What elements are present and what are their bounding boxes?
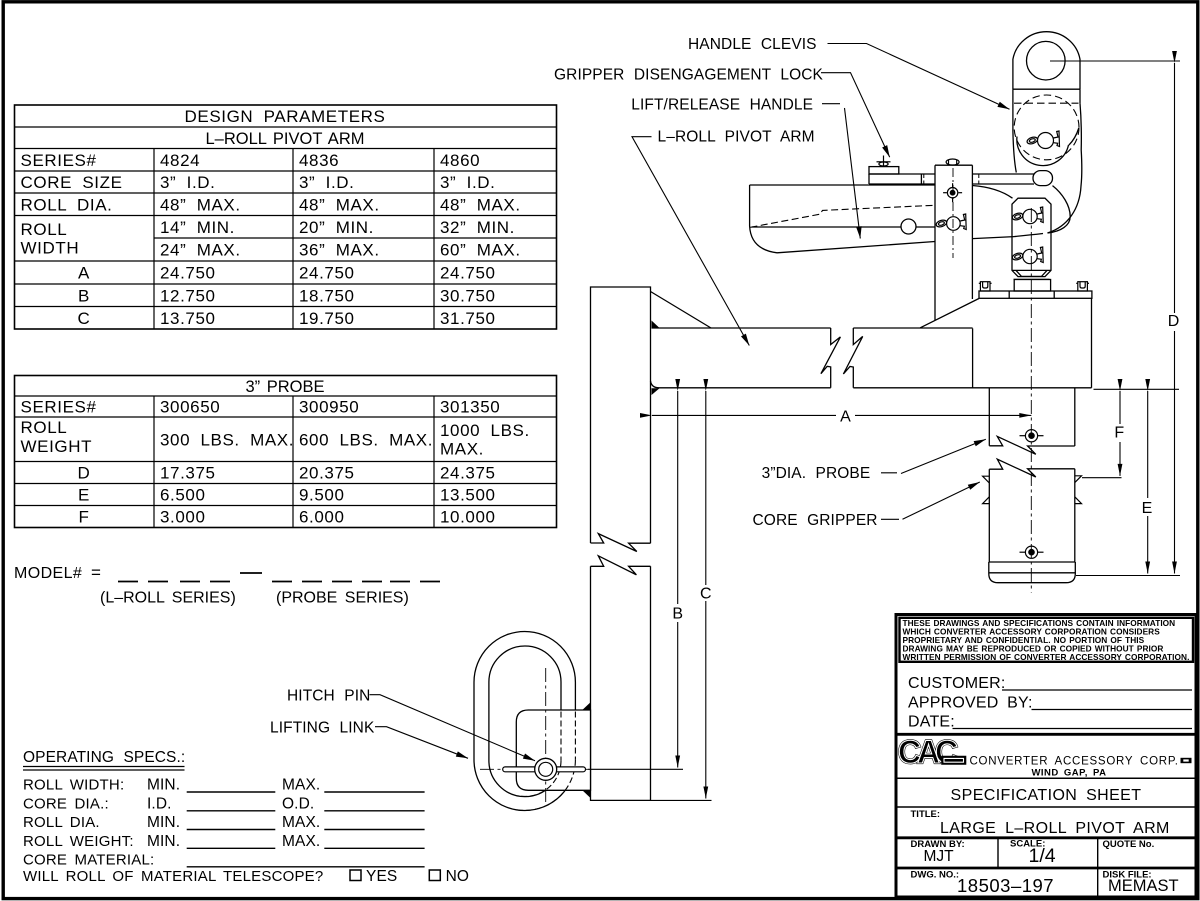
svg-text:4824: 4824 [160,151,200,170]
svg-text:CORE MATERIAL:: CORE MATERIAL: [23,851,154,868]
svg-text:LIFTING LINK: LIFTING LINK [270,719,375,736]
L-roll mast column upper piece [591,287,651,552]
lifting link bracket plate [516,710,590,790]
svg-text:12.750: 12.750 [160,286,216,305]
svg-text:18503–197: 18503–197 [957,875,1054,896]
svg-text:9.500: 9.500 [299,486,345,505]
svg-text:32” MIN.: 32” MIN. [440,218,515,237]
svg-text:300950: 300950 [299,398,359,417]
svg-text:DWG. NO.:: DWG. NO.: [911,870,960,881]
svg-text:QUOTE No.: QUOTE No. [1103,839,1155,850]
svg-text:3” I.D.: 3” I.D. [299,173,355,192]
svg-text:ROLL DIA.: ROLL DIA. [21,195,113,214]
svg-text:3” I.D.: 3” I.D. [160,173,216,192]
svg-text:6.500: 6.500 [160,486,206,505]
hidden (dashed) ring edges behind plate [518,712,576,811]
svg-text:SERIES#: SERIES# [21,398,97,417]
svg-text:MJT: MJT [924,848,955,865]
svg-text:A: A [78,264,90,283]
svg-text:LIFT/RELEASE HANDLE: LIFT/RELEASE HANDLE [631,97,813,114]
legal notice box [900,618,1194,662]
svg-text:L–ROLL PIVOT ARM: L–ROLL PIVOT ARM [658,129,815,146]
dim E [1147,391,1149,574]
title block outer frame [896,615,1196,898]
probe retaining bolt [1020,430,1044,442]
svg-text:1/4: 1/4 [1029,845,1056,867]
svg-text:24.750: 24.750 [160,264,216,283]
svg-text:MAX.: MAX. [282,833,320,850]
svg-text:=: = [91,563,102,582]
lower link plate (core gripper link) [1012,198,1051,279]
svg-text:CORE GRIPPER: CORE GRIPPER [753,512,878,529]
lift/release handle arm [750,185,1043,253]
svg-text:DATE:: DATE: [908,714,955,731]
svg-text:WEIGHT: WEIGHT [21,437,93,456]
svg-text:3.000: 3.000 [160,508,206,527]
svg-text:A: A [840,409,851,426]
svg-text:HANDLE CLEVIS: HANDLE CLEVIS [688,36,817,53]
svg-text:300 LBS. MAX.: 300 LBS. MAX. [160,431,294,450]
svg-text:F: F [79,508,90,527]
lifting link inner ring [489,646,561,797]
lock bolt [877,156,891,168]
svg-text:ROLL WEIGHT:: ROLL WEIGHT: [23,833,134,850]
svg-text:24.750: 24.750 [440,264,496,283]
left clamp bolt [979,282,992,291]
svg-text:4860: 4860 [440,151,480,170]
weld fillet triangles at beam/column joint [652,321,660,328]
handle strap bar [869,171,1053,186]
svg-text:GRIPPER DISENGAGEMENT LOCK: GRIPPER DISENGAGEMENT LOCK [554,67,824,84]
post pivot crosshair bolt [943,183,962,202]
svg-text:19.750: 19.750 [299,309,355,328]
svg-text:O.D.: O.D. [282,795,314,812]
svg-text:MIN.: MIN. [147,777,180,794]
svg-text:ROLL: ROLL [21,220,68,239]
weld triangles plate-to-column [582,702,590,710]
dim D [1050,61,1180,574]
post wing bolt [935,214,966,230]
svg-text:MAX.: MAX. [282,777,320,794]
svg-text:ROLL DIA.: ROLL DIA. [23,814,100,831]
post centerline [952,168,954,258]
svg-text:I.D.: I.D. [147,795,172,812]
svg-text:MODEL#: MODEL# [14,565,82,582]
svg-text:18.750: 18.750 [299,286,355,305]
svg-text:30.750: 30.750 [440,286,496,305]
svg-text:LARGE L–ROLL PIVOT ARM: LARGE L–ROLL PIVOT ARM [940,820,1170,837]
svg-text:WILL ROLL OF MATERIAL TELESCOP: WILL ROLL OF MATERIAL TELESCOPE? [23,868,323,885]
svg-text:CONVERTER ACCESSORY CORP.: CONVERTER ACCESSORY CORP. [970,756,1179,768]
svg-text:TITLE:: TITLE: [911,809,941,820]
link plate wing bolt lower [1012,247,1044,264]
svg-text:WIDTH: WIDTH [21,239,80,258]
dim C [651,391,712,800]
cam hook (gripper cam) [1017,103,1082,233]
svg-text:20” MIN.: 20” MIN. [299,218,374,237]
svg-text:20.375: 20.375 [299,464,355,483]
svg-text:36” MAX.: 36” MAX. [299,241,380,260]
svg-text:E: E [78,486,90,505]
svg-text:HITCH PIN: HITCH PIN [287,687,370,704]
svg-text:L–ROLL PIVOT ARM: L–ROLL PIVOT ARM [206,130,365,148]
svg-text:MIN.: MIN. [147,833,180,850]
svg-text:48” MAX.: 48” MAX. [160,195,241,214]
svg-text:(L–ROLL SERIES): (L–ROLL SERIES) [100,590,236,607]
svg-text:F: F [1114,425,1124,442]
svg-text:(PROBE SERIES): (PROBE SERIES) [276,590,409,607]
dim A [652,414,1031,416]
svg-text:300650: 300650 [160,398,220,417]
probe centerline [1030,208,1032,593]
svg-text:60” MAX.: 60” MAX. [440,241,521,260]
dim F [1082,391,1122,478]
svg-text:CORE DIA.:: CORE DIA.: [23,795,109,812]
svg-text:13.750: 13.750 [160,309,216,328]
table: 3" PROBE [15,376,557,528]
svg-text:E: E [1142,500,1153,517]
handle clevis [1013,32,1080,173]
svg-text:WIND GAP, PA: WIND GAP, PA [1031,768,1106,779]
svg-text:SPECIFICATION SHEET: SPECIFICATION SHEET [951,787,1142,804]
svg-text:SERIES#: SERIES# [21,151,97,170]
post top bolt [946,159,959,165]
svg-text:MIN.: MIN. [147,814,180,831]
right clamp bolt [1076,282,1089,291]
main beam left piece [651,328,841,388]
probe holder base flange [979,291,1092,298]
pedestal block under link plate [1014,280,1050,292]
svg-text:13.500: 13.500 [440,486,496,505]
svg-text:1000 LBS.: 1000 LBS. [440,421,530,440]
svg-text:OPERATING SPECS.:: OPERATING SPECS.: [23,749,185,766]
3" dia probe [989,388,1075,455]
svg-text:3” I.D.: 3” I.D. [440,173,496,192]
svg-text:3” PROBE: 3” PROBE [245,378,324,396]
gripper bolt [1020,546,1044,558]
gripper jaw teeth [983,476,1082,504]
gusset column-to-beam [651,292,712,329]
CAC logo [898,734,958,770]
main beam right piece [843,298,1091,388]
dim B [588,391,683,769]
svg-text:MAX.: MAX. [440,440,484,459]
svg-text:CORE SIZE: CORE SIZE [21,173,123,192]
svg-text:CUSTOMER:: CUSTOMER: [908,675,1006,692]
svg-text:24.375: 24.375 [440,464,496,483]
svg-text:C: C [78,309,91,328]
table: DESIGN PARAMETERS [15,105,557,329]
hitch pin bar [503,767,586,772]
pivot post [935,165,972,320]
svg-text:YES: YES [366,868,397,885]
svg-text:C: C [700,586,712,603]
svg-text:ROLL WIDTH:: ROLL WIDTH: [23,777,124,794]
svg-text:MAX.: MAX. [282,814,320,831]
link centerlines [480,668,588,806]
svg-text:10.000: 10.000 [440,508,496,527]
svg-text:17.375: 17.375 [160,464,216,483]
svg-text:B: B [672,606,683,623]
svg-text:ROLL: ROLL [21,418,68,437]
svg-text:D: D [78,464,91,483]
gripper disengagement lock block [869,167,921,184]
svg-text:31.750: 31.750 [440,309,496,328]
svg-text:48” MAX.: 48” MAX. [440,195,521,214]
core gripper [989,459,1076,583]
L-roll mast column lower piece [591,556,651,801]
svg-text:DESIGN PARAMETERS: DESIGN PARAMETERS [185,107,386,126]
svg-text:600 LBS. MAX.: 600 LBS. MAX. [299,431,433,450]
svg-text:APPROVED BY:: APPROVED BY: [908,695,1033,712]
svg-text:3”DIA. PROBE: 3”DIA. PROBE [762,465,871,482]
svg-text:NO: NO [446,868,469,885]
hitch pin head [535,758,557,780]
dim reference lines right [1076,389,1180,575]
cam wing bolt [1026,131,1059,149]
svg-text:24” MAX.: 24” MAX. [160,241,241,260]
svg-text:4836: 4836 [299,151,339,170]
svg-text:MEMAST: MEMAST [1108,877,1179,895]
svg-text:WRITTEN PERMISSION OF CONVERTE: WRITTEN PERMISSION OF CONVERTER ACCESSOR… [903,652,1190,662]
svg-text:6.000: 6.000 [299,508,345,527]
svg-text:D: D [1168,313,1180,330]
svg-text:24.750: 24.750 [299,264,355,283]
svg-text:48” MAX.: 48” MAX. [299,195,380,214]
svg-text:14” MIN.: 14” MIN. [160,218,235,237]
lifting link outer ring [474,632,575,811]
svg-text:301350: 301350 [440,398,500,417]
svg-text:B: B [78,286,90,305]
link plate wing bolt upper [1012,207,1044,224]
